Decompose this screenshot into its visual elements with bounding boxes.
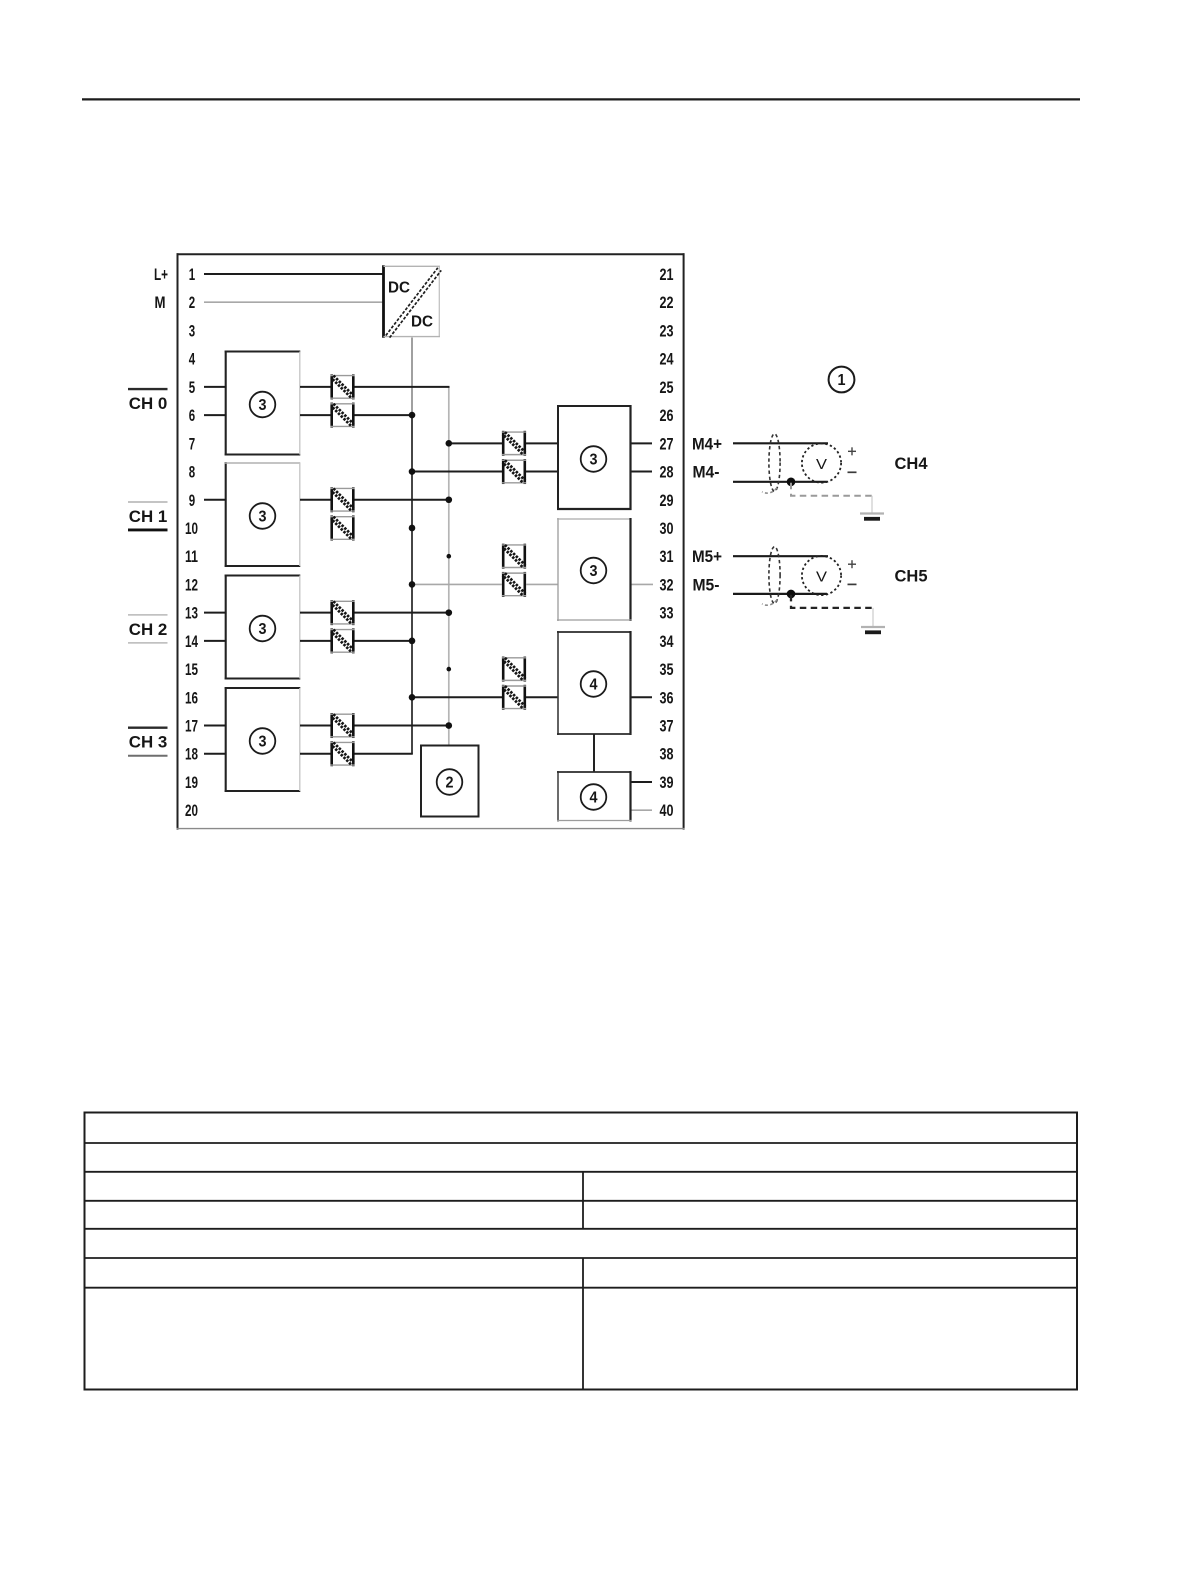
- wire CH2 U+ barrier to bus B: [354, 612, 450, 614]
- wire CH1 U+ barrier to bus B: [354, 499, 450, 501]
- svg-text:1: 1: [189, 265, 195, 284]
- isolation barrier CH0 M: [331, 403, 355, 428]
- channel label CH 3: [128, 728, 168, 756]
- wire block4b to pin 39: [631, 781, 653, 783]
- wire M5+ lead: [733, 555, 828, 557]
- channel label CH 1: [128, 502, 168, 530]
- module frame right border: [683, 253, 685, 829]
- bus A (M internal bus): [411, 338, 413, 754]
- channel label CH 0: [128, 389, 168, 413]
- ADC block 3 CH4: [557, 405, 632, 510]
- svg-text:10: 10: [185, 519, 198, 538]
- wire pin2 M to DC/DC: [204, 301, 384, 303]
- svg-text:CH 3: CH 3: [129, 734, 168, 752]
- svg-text:21: 21: [660, 265, 674, 284]
- svg-text:5: 5: [189, 378, 195, 397]
- wire pin 6 stub: [204, 414, 227, 416]
- junction bus B row 15: [447, 667, 452, 672]
- svg-text:19: 19: [185, 773, 198, 792]
- module frame top border: [177, 253, 685, 255]
- isolation barrier block4 M: [502, 685, 526, 710]
- svg-text:37: 37: [660, 717, 674, 736]
- svg-text:DC: DC: [388, 280, 410, 297]
- svg-text:M5-: M5-: [693, 575, 720, 594]
- svg-text:CH5: CH5: [895, 566, 928, 585]
- cable shield CH5: [762, 547, 780, 606]
- wire CH5 M barrier to block: [526, 583, 559, 585]
- wire pin 18 stub: [204, 753, 227, 755]
- junction bus A row 12: [409, 581, 416, 588]
- svg-text:3: 3: [590, 563, 598, 580]
- bus B (U internal bus): [448, 387, 450, 746]
- cable shield CH4: [762, 434, 780, 493]
- ground symbol CH4: [860, 496, 884, 519]
- wire bus B to CH4 barrier: [449, 442, 502, 444]
- isolation barrier CH1 M: [331, 515, 355, 540]
- wire CH0 U+ block to barrier: [300, 386, 331, 388]
- svg-text:31: 31: [660, 547, 674, 566]
- svg-text:CH4: CH4: [895, 454, 929, 473]
- page header rule: [82, 98, 1080, 100]
- svg-text:27: 27: [660, 434, 674, 453]
- wire pin1 L+ to DC/DC: [204, 273, 384, 275]
- annotation circled 1: [829, 367, 855, 393]
- isolation barrier CH3 M: [331, 741, 355, 766]
- junction bus A row 10: [409, 525, 416, 532]
- wire block4 barrier to block: [526, 696, 559, 698]
- wire CH2 M block to barrier: [300, 640, 331, 642]
- wire block4b to pin 40: [631, 809, 653, 811]
- svg-text:3: 3: [259, 621, 267, 638]
- svg-text:16: 16: [185, 688, 198, 707]
- input block 3 CH0: [225, 351, 301, 456]
- svg-text:33: 33: [660, 604, 674, 623]
- svg-text:9: 9: [189, 491, 195, 510]
- voltmeter V CH5: [802, 556, 841, 595]
- svg-text:40: 40: [660, 801, 674, 820]
- svg-text:24: 24: [660, 350, 674, 369]
- ADC block 3 CH5: [557, 518, 632, 621]
- wire CH3 U+ block to barrier: [300, 725, 331, 727]
- svg-text:30: 30: [660, 519, 674, 538]
- svg-text:32: 32: [660, 575, 674, 594]
- isolation barrier CH2 U+: [331, 600, 355, 625]
- isolation barrier CH1 U+: [331, 487, 355, 512]
- channel label CH 2: [128, 615, 168, 643]
- ground connection CH4: [791, 483, 872, 496]
- isolation barrier CH5 M: [502, 572, 526, 597]
- svg-text:4: 4: [189, 350, 196, 369]
- DC/DC converter: [384, 265, 442, 338]
- junction bus A row 6: [409, 412, 416, 419]
- svg-text:22: 22: [660, 293, 674, 312]
- svg-text:DC: DC: [411, 314, 433, 331]
- junction M4- node: [787, 478, 796, 487]
- module frame left border: [177, 253, 179, 829]
- svg-text:35: 35: [660, 660, 674, 679]
- svg-text:CH 0: CH 0: [129, 395, 168, 413]
- svg-text:29: 29: [660, 491, 674, 510]
- svg-text:3: 3: [259, 509, 267, 526]
- svg-text:3: 3: [259, 397, 267, 414]
- svg-text:4: 4: [590, 790, 598, 807]
- svg-text:7: 7: [189, 434, 195, 453]
- wire M4- lead: [733, 481, 827, 483]
- wire pin 17 stub: [204, 725, 227, 727]
- svg-text:2: 2: [446, 775, 454, 792]
- ground connection CH5: [791, 595, 873, 608]
- isolation barrier CH2 M: [331, 628, 355, 653]
- svg-text:20: 20: [185, 801, 198, 820]
- input block 3 CH1: [225, 462, 301, 567]
- input block 3 CH2: [225, 575, 301, 680]
- junction bus B row 17: [446, 722, 453, 729]
- wire CH3 M block to barrier: [300, 753, 331, 755]
- ground symbol CH5: [861, 608, 885, 632]
- wire CH4 block to pin 28: [631, 471, 653, 473]
- svg-text:V: V: [816, 568, 827, 585]
- wire block4 to block4b: [593, 734, 595, 772]
- isolation barrier block4 U: [502, 657, 526, 682]
- svg-text:8: 8: [189, 463, 195, 482]
- svg-text:M4+: M4+: [692, 434, 722, 453]
- wire CH2 U+ block to barrier: [300, 612, 331, 614]
- svg-text:39: 39: [660, 773, 674, 792]
- svg-text:V: V: [816, 456, 827, 473]
- svg-text:1: 1: [838, 372, 846, 389]
- polarity - CH4: [848, 471, 857, 473]
- junction bus B row 13: [446, 609, 453, 616]
- svg-text:CH 2: CH 2: [129, 621, 168, 639]
- wire M4+ lead: [733, 442, 828, 444]
- svg-text:M4-: M4-: [693, 463, 720, 482]
- module frame bottom border: [177, 828, 685, 830]
- block 4 upper: [557, 631, 632, 735]
- isolation barrier CH5 U: [502, 544, 526, 569]
- svg-text:L+: L+: [154, 265, 168, 284]
- voltmeter V CH4: [802, 443, 841, 482]
- wire CH1 U+ block to barrier: [300, 499, 331, 501]
- junction bus A row 16: [409, 694, 416, 701]
- svg-text:34: 34: [660, 632, 674, 651]
- wire pin 14 stub: [204, 640, 227, 642]
- wire CH5 block to pin 32: [631, 583, 654, 585]
- wire bus A to CH4 M barrier: [412, 471, 502, 473]
- input block 3 CH3: [225, 687, 301, 792]
- svg-text:15: 15: [185, 660, 198, 679]
- svg-text:26: 26: [660, 406, 674, 425]
- svg-text:36: 36: [660, 688, 674, 707]
- wire CH4 M barrier to block: [526, 471, 559, 473]
- wire CH0 M block to barrier: [300, 414, 331, 416]
- junction bus A row 8: [409, 468, 416, 475]
- svg-text:12: 12: [185, 575, 198, 594]
- wire CH3 M barrier to bus A: [354, 753, 413, 755]
- svg-text:M: M: [155, 293, 166, 312]
- block 2: [420, 745, 480, 818]
- wire bus A to block4 barrier: [412, 696, 502, 698]
- polarity + CH5: [848, 560, 856, 568]
- svg-text:38: 38: [660, 745, 674, 764]
- isolation barrier CH4 M: [502, 459, 526, 484]
- wire block4 to pin 36: [631, 696, 653, 698]
- svg-text:23: 23: [660, 321, 674, 340]
- specification table: [85, 1113, 1078, 1390]
- isolation barrier CH0 U+: [331, 374, 355, 399]
- wire CH4 barrier to block: [526, 442, 559, 444]
- isolation barrier CH4 U: [502, 431, 526, 456]
- svg-text:CH 1: CH 1: [129, 508, 168, 526]
- svg-text:M5+: M5+: [692, 547, 722, 566]
- svg-text:4: 4: [590, 677, 598, 694]
- isolation barrier CH3 U+: [331, 713, 355, 738]
- wire pin 9 stub: [204, 499, 227, 501]
- svg-text:13: 13: [185, 604, 198, 623]
- svg-text:25: 25: [660, 378, 674, 397]
- svg-text:18: 18: [185, 745, 198, 764]
- wire CH3 U+ barrier to bus B: [354, 725, 450, 727]
- svg-text:3: 3: [259, 734, 267, 751]
- junction bus B row 11: [447, 554, 452, 559]
- polarity + CH4: [848, 447, 856, 455]
- svg-text:6: 6: [189, 406, 195, 425]
- block 4 lower: [557, 771, 632, 822]
- svg-text:17: 17: [185, 717, 198, 736]
- wire M5- lead: [733, 593, 827, 595]
- wire CH0 M barrier to bus A: [354, 414, 413, 416]
- svg-text:28: 28: [660, 463, 674, 482]
- wire CH0 U+ barrier to bus B: [354, 386, 450, 388]
- polarity - CH5: [848, 583, 857, 585]
- wire pin 5 stub: [204, 386, 227, 388]
- junction bus A row 14: [409, 638, 416, 645]
- svg-text:3: 3: [590, 452, 598, 469]
- svg-text:11: 11: [185, 547, 198, 566]
- wire CH4 block to pin 27: [631, 442, 653, 444]
- wire pin 13 stub: [204, 612, 227, 614]
- svg-text:2: 2: [189, 293, 195, 312]
- svg-text:14: 14: [185, 632, 198, 651]
- wire CH2 M barrier to bus A: [354, 640, 413, 642]
- junction bus B row 7: [446, 440, 453, 447]
- junction bus B row 9: [446, 496, 453, 503]
- svg-text:3: 3: [189, 321, 195, 340]
- junction M5- node: [787, 590, 796, 599]
- wire bus A to CH5 M barrier: [412, 583, 502, 585]
